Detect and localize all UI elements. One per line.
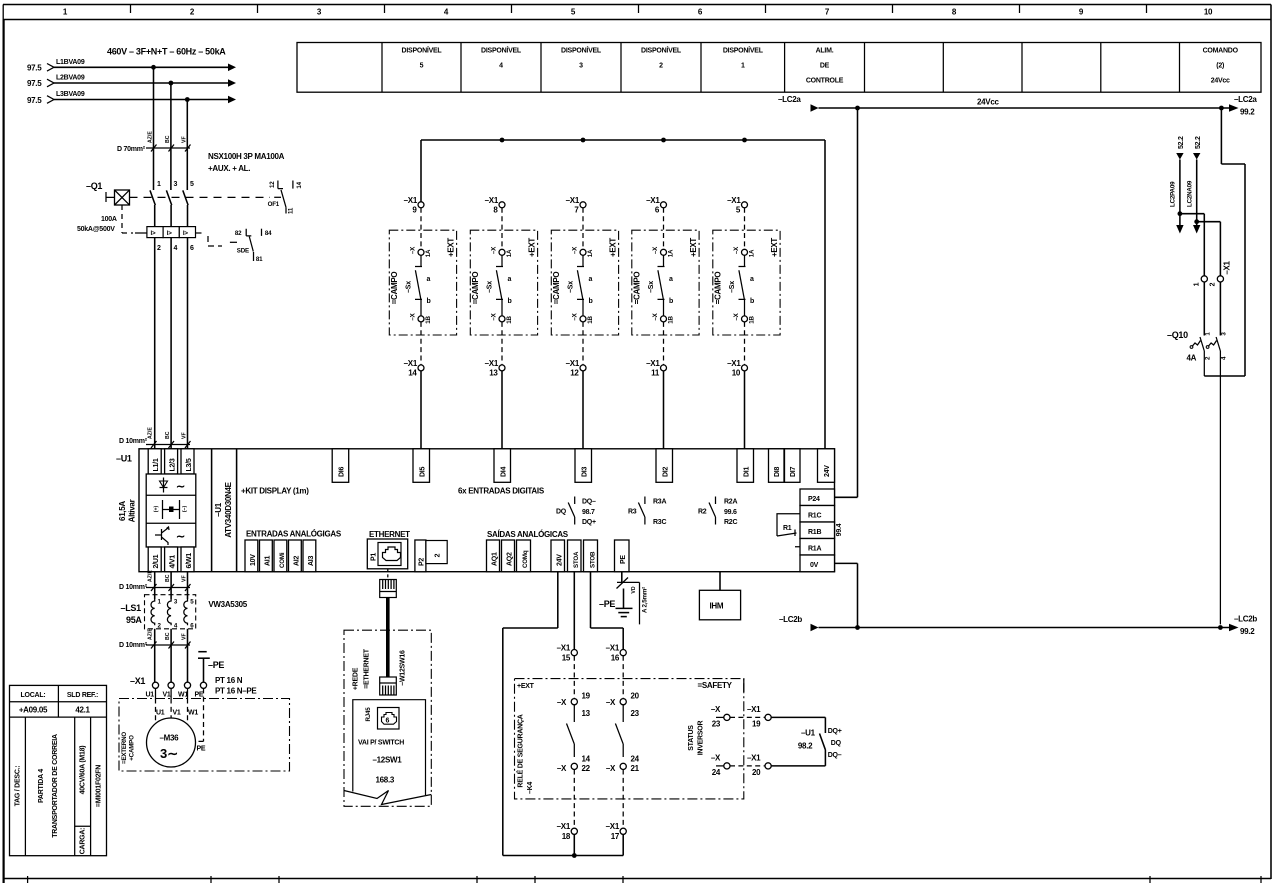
- wire X1:16 to K4: [622, 656, 624, 699]
- svg-text:DI5: DI5: [419, 467, 426, 478]
- terminal X1:5: [727, 196, 747, 249]
- terminal X 1A (S5): [733, 246, 756, 257]
- svg-text:ETHERNET: ETHERNET: [369, 530, 410, 539]
- terminal X 22 (K4): [557, 755, 591, 774]
- dc link symbol: [154, 500, 189, 519]
- junction campo bus c5: [742, 138, 747, 143]
- svg-text:L3/5: L3/5: [186, 458, 193, 471]
- wire W into motor: [187, 688, 189, 698]
- breaker Q1 pole 1: [150, 181, 161, 227]
- port P1 with RJ45 jack: [367, 539, 407, 569]
- wire LC2PA09: [1170, 136, 1186, 233]
- svg-text:BC: BC: [165, 135, 171, 143]
- drive U1 input terminal L3/5: [181, 449, 194, 474]
- status inversor labels: [688, 721, 705, 756]
- terminal 10V: [245, 540, 258, 572]
- svg-text:24: 24: [631, 755, 640, 764]
- terminal AI2: [289, 540, 302, 572]
- svg-text:–X: –X: [557, 698, 567, 707]
- svg-text:–X: –X: [606, 764, 616, 773]
- svg-text:DQ: DQ: [831, 740, 842, 747]
- svg-text:PE: PE: [197, 746, 206, 753]
- svg-text:L2/3: L2/3: [170, 458, 177, 471]
- svg-text:DISPONÍVEL: DISPONÍVEL: [561, 45, 602, 54]
- terminal X 1B (S3): [572, 312, 595, 323]
- terminal DI3: [575, 449, 592, 483]
- svg-text:DQ+: DQ+: [582, 519, 596, 526]
- terminal X1:16: [606, 644, 627, 663]
- junction Q10 to LC2b: [1218, 625, 1223, 630]
- svg-text:–12SW1: –12SW1: [373, 756, 403, 765]
- drive U1 output terminal 4/V1: [165, 547, 178, 572]
- svg-text:18: 18: [562, 832, 571, 841]
- svg-text:LC2PA09: LC2PA09: [1170, 181, 1177, 207]
- net LC2a 24Vcc bus: [778, 95, 1257, 117]
- svg-text:–X: –X: [733, 312, 740, 320]
- column header table: [297, 43, 1261, 93]
- svg-text:11: 11: [288, 207, 295, 214]
- wire safety return bus: [503, 834, 623, 855]
- svg-text:=CAMPO: =CAMPO: [390, 272, 399, 305]
- wire X1:2 to Q10: [1219, 282, 1221, 336]
- svg-text:24V: 24V: [557, 554, 564, 566]
- svg-text:VF: VF: [181, 633, 187, 640]
- svg-text:–X1: –X1: [566, 196, 580, 205]
- junction L3: [185, 97, 190, 102]
- svg-text:VF: VF: [181, 136, 187, 143]
- svg-text:1: 1: [157, 181, 161, 188]
- svg-text:–LS1: –LS1: [121, 603, 142, 613]
- svg-text:D 70mm²: D 70mm²: [117, 146, 146, 153]
- choke coil 1: [151, 599, 162, 630]
- cable label D 10mm2 choke in: [119, 570, 191, 591]
- svg-text:–X1: –X1: [404, 196, 418, 205]
- terminal X1:17: [606, 822, 627, 841]
- terminal AI1: [260, 540, 273, 572]
- svg-text:–X: –X: [557, 764, 567, 773]
- svg-text:R3: R3: [628, 509, 637, 516]
- svg-text:–X: –X: [711, 754, 721, 763]
- svg-text:DISPONÍVEL: DISPONÍVEL: [481, 45, 522, 54]
- terminal X1:19 status: [747, 705, 771, 729]
- svg-text:–Sx: –Sx: [568, 281, 575, 293]
- svg-text:U1: U1: [156, 710, 165, 717]
- svg-text:R1B: R1B: [808, 529, 821, 536]
- svg-text:2: 2: [157, 245, 161, 252]
- svg-text:99.4: 99.4: [836, 523, 843, 536]
- svg-text:–X1: –X1: [747, 754, 761, 763]
- cable label D 70mm2: [117, 131, 191, 153]
- wire PE drive to ground: [617, 572, 649, 625]
- svg-text:24V: 24V: [824, 465, 831, 477]
- svg-text:R1A: R1A: [808, 546, 821, 553]
- breaker Q10 pole 2: [1206, 337, 1220, 624]
- wire 24Vcc to P24: [835, 108, 858, 497]
- wire 24V digital common bus: [421, 140, 825, 449]
- switch -S5: [729, 255, 754, 316]
- svg-text:4: 4: [174, 245, 178, 252]
- terminal R1B: [800, 522, 835, 539]
- terminal X1:U1: [146, 682, 159, 698]
- enclosure EXT SAFETY: [515, 679, 744, 799]
- svg-text:PT 16 N: PT 16 N: [215, 676, 243, 685]
- svg-text:AI2: AI2: [294, 556, 301, 567]
- svg-text:3: 3: [174, 181, 178, 188]
- svg-text:PARTIDA 4: PARTIDA 4: [38, 769, 45, 803]
- svg-text:–X: –X: [733, 246, 740, 254]
- svg-text:2: 2: [1210, 282, 1217, 286]
- breaker Q10: [1167, 330, 1228, 363]
- motor M36: [147, 710, 199, 768]
- svg-text:42.1: 42.1: [75, 706, 90, 715]
- value label PT 16: [215, 676, 257, 696]
- svg-text:DI2: DI2: [662, 467, 669, 478]
- ethernet cable W12SW16: [380, 569, 407, 695]
- relay contact R1: [777, 514, 800, 547]
- svg-text:DI3: DI3: [581, 467, 588, 478]
- svg-text:1B: 1B: [506, 316, 513, 324]
- wire W to X1: [187, 629, 189, 683]
- choke coil 3: [184, 599, 195, 630]
- cable label D 10mm2 input: [119, 427, 191, 448]
- terminal PE drive: [615, 540, 630, 572]
- breaker Q1: [77, 181, 133, 233]
- svg-text:–X: –X: [711, 705, 721, 714]
- terminal DI7: [785, 449, 801, 483]
- junction L1: [151, 65, 156, 70]
- cable label D 10mm2 choke out: [119, 628, 191, 649]
- svg-text:–X1: –X1: [727, 359, 741, 368]
- svg-text:1A: 1A: [749, 249, 756, 257]
- svg-text:IHM: IHM: [710, 602, 724, 611]
- svg-text:=SAFETY: =SAFETY: [698, 681, 733, 690]
- terminal X 1B (S1): [410, 312, 433, 323]
- svg-text:24Vcc: 24Vcc: [1211, 77, 1230, 84]
- svg-text:∼: ∼: [176, 531, 185, 543]
- svg-text:DI7: DI7: [790, 467, 797, 478]
- svg-text:DI6: DI6: [339, 467, 346, 478]
- svg-text:–X1: –X1: [646, 196, 660, 205]
- svg-text:4: 4: [499, 62, 503, 69]
- svg-text:RJ45: RJ45: [365, 707, 372, 722]
- wire X1:1 to Q10: [1203, 282, 1205, 336]
- terminal X1:7: [566, 196, 586, 249]
- svg-text:10V: 10V: [250, 554, 257, 566]
- terminal X1:15: [557, 644, 578, 663]
- svg-text:4/V1: 4/V1: [170, 555, 177, 569]
- terminal X1:6: [646, 196, 666, 249]
- svg-text:b: b: [427, 298, 431, 305]
- svg-text:1B: 1B: [668, 316, 675, 324]
- terminal AI3: [303, 540, 316, 572]
- svg-text:13: 13: [489, 369, 498, 378]
- svg-text:+CAMPO: +CAMPO: [129, 735, 136, 761]
- svg-text:3: 3: [579, 62, 583, 69]
- svg-text:R3A: R3A: [653, 499, 666, 506]
- svg-text:a: a: [669, 276, 673, 283]
- terminal DI1: [737, 449, 754, 483]
- drive U1 input terminal L2/3: [165, 449, 178, 474]
- svg-text:99.6: 99.6: [724, 509, 737, 516]
- terminal X1:14: [404, 322, 424, 378]
- wire U into motor: [155, 688, 157, 698]
- svg-text:1A: 1A: [668, 249, 675, 257]
- svg-text:–LC2a: –LC2a: [778, 95, 801, 104]
- svg-text:b: b: [750, 298, 754, 305]
- svg-text:20: 20: [752, 768, 761, 777]
- terminal X1:11: [646, 322, 666, 378]
- svg-text:99.2: 99.2: [1240, 108, 1255, 117]
- wire motor phase U: [154, 572, 156, 599]
- svg-text:19: 19: [752, 720, 761, 729]
- svg-text:–Sx: –Sx: [729, 281, 736, 293]
- terminal P24: [800, 489, 835, 506]
- svg-text:R2A: R2A: [724, 499, 737, 506]
- svg-text:1B: 1B: [749, 316, 756, 324]
- svg-text:–X1: –X1: [727, 196, 741, 205]
- svg-text:–Sx: –Sx: [406, 281, 413, 293]
- svg-text:DQ–: DQ–: [828, 752, 842, 759]
- svg-text:CARGA:: CARGA:: [80, 828, 87, 855]
- enclosure CAMPO column S5: [713, 230, 780, 335]
- breaker Q1 pole 2: [166, 181, 177, 227]
- svg-text:P24: P24: [808, 496, 820, 503]
- aux contact SDE: [230, 229, 272, 263]
- junction LC2NA09: [1194, 219, 1199, 224]
- wire to DI5: [420, 371, 422, 449]
- svg-text:–X: –X: [606, 698, 616, 707]
- svg-text:82: 82: [235, 230, 242, 237]
- switch -S2: [487, 255, 512, 316]
- wire phase 3 drop: [186, 100, 188, 191]
- wire to DI1: [744, 371, 746, 449]
- svg-text:12: 12: [269, 181, 276, 188]
- wire LC2NA09: [1186, 136, 1202, 233]
- svg-text:+EXT: +EXT: [689, 238, 698, 257]
- svg-text:14: 14: [582, 755, 591, 764]
- svg-text:23: 23: [631, 709, 640, 718]
- value label NSX100H: [208, 152, 285, 173]
- svg-text:5: 5: [190, 181, 194, 188]
- svg-text:AZ/E: AZ/E: [148, 628, 154, 640]
- svg-text:–Sx: –Sx: [487, 281, 494, 293]
- svg-text:24: 24: [712, 768, 721, 777]
- wire branch to X1:2: [1197, 222, 1221, 276]
- svg-text:1B: 1B: [587, 316, 594, 324]
- wire L3BVA09: [27, 91, 236, 105]
- svg-text:–Q1: –Q1: [86, 181, 102, 191]
- svg-text:–PE: –PE: [599, 599, 615, 609]
- terminal X1:9: [404, 196, 424, 249]
- svg-text:VF: VF: [181, 575, 187, 582]
- svg-text:–Q10: –Q10: [1167, 330, 1188, 340]
- svg-text:16: 16: [611, 654, 620, 663]
- wire branch to X1:1: [1180, 214, 1204, 276]
- svg-text:a: a: [508, 276, 512, 283]
- enclosure CAMPO column S4: [632, 230, 699, 335]
- svg-text:–LC2b: –LC2b: [779, 615, 802, 624]
- terminal DI4: [494, 449, 511, 483]
- switch -S1: [406, 255, 431, 316]
- svg-text:DI4: DI4: [500, 467, 507, 478]
- contact R3: [628, 497, 666, 527]
- breaker Q10 pole 1: [1190, 337, 1204, 376]
- svg-text:95A: 95A: [126, 615, 142, 625]
- terminal X 1B (S4): [652, 312, 675, 323]
- junction 0V to LC2b: [855, 625, 860, 630]
- terminal DI8: [769, 449, 785, 483]
- svg-text:D 10mm²: D 10mm²: [119, 642, 148, 649]
- svg-text:ALIM.: ALIM.: [816, 47, 834, 54]
- terminal X 23 (status): [711, 705, 730, 729]
- svg-text:P1: P1: [371, 553, 378, 561]
- svg-text:6x ENTRADAS DIGITAIS: 6x ENTRADAS DIGITAIS: [458, 487, 545, 496]
- svg-text:VF: VF: [181, 432, 187, 439]
- choke coil 2: [167, 599, 178, 630]
- svg-text:INVERSOR: INVERSOR: [698, 721, 705, 756]
- svg-text:1A: 1A: [425, 249, 432, 257]
- contact K4 pole 2: [615, 705, 623, 757]
- svg-text:I>: I>: [151, 230, 157, 237]
- terminal X1:12: [566, 322, 586, 378]
- svg-text:ENTRADAS ANALÓGIGAS: ENTRADAS ANALÓGIGAS: [246, 530, 342, 539]
- drive U1 input terminal L1/1: [148, 449, 161, 474]
- wire L1BVA09: [27, 59, 236, 73]
- svg-text:23: 23: [712, 720, 721, 729]
- wire motor PE: [196, 688, 206, 752]
- wire phase 3 to drive: [187, 238, 189, 449]
- svg-text:61,5A: 61,5A: [118, 501, 127, 521]
- junction LC2PA09: [1178, 211, 1183, 216]
- terminal 24V top: [818, 449, 835, 483]
- terminal X 21 (K4): [606, 755, 640, 774]
- terminal X 19 (K4): [557, 692, 591, 719]
- contact R2: [698, 497, 737, 527]
- wire to DI4: [501, 371, 503, 449]
- terminal 24V bottom: [551, 540, 565, 572]
- svg-text:AZ/E: AZ/E: [148, 131, 154, 143]
- svg-text:–X: –X: [491, 312, 498, 320]
- svg-text:1: 1: [741, 62, 745, 69]
- svg-text:DQ–: DQ–: [582, 499, 596, 506]
- terminal STOB: [584, 540, 598, 572]
- svg-text:17: 17: [611, 832, 620, 841]
- wire X24 to X1:20: [730, 765, 765, 767]
- wire to DI2: [663, 371, 665, 449]
- terminal X1:W1: [178, 682, 191, 698]
- drive U1 output terminal 2/U1: [148, 547, 161, 572]
- svg-text:11: 11: [651, 369, 660, 378]
- svg-text:R2: R2: [698, 509, 707, 516]
- trip unit I> boxes: [135, 227, 222, 252]
- terminal R1C: [800, 506, 835, 523]
- svg-text:–X1: –X1: [404, 359, 418, 368]
- terminal X 1A (S3): [572, 246, 595, 257]
- svg-text:–X1: –X1: [747, 705, 761, 714]
- svg-text:DI1: DI1: [743, 467, 750, 478]
- svg-text:A 2,5mm²: A 2,5mm²: [642, 587, 649, 613]
- svg-text:BC: BC: [165, 632, 171, 640]
- svg-text:COMi: COMi: [279, 552, 286, 568]
- terminal DI6: [332, 449, 349, 483]
- junction campo bus c4: [661, 138, 666, 143]
- svg-text:14: 14: [296, 181, 303, 188]
- svg-text:VAI P/ SWITCH: VAI P/ SWITCH: [358, 740, 404, 747]
- svg-text:BC: BC: [165, 431, 171, 439]
- display IHM: [699, 572, 740, 620]
- terminal X 20 (K4): [606, 692, 640, 719]
- contact DQ: [556, 497, 596, 527]
- svg-text:–PE: –PE: [208, 660, 224, 670]
- svg-text:–W12SW16: –W12SW16: [400, 650, 407, 686]
- svg-text:b: b: [669, 298, 673, 305]
- svg-text:NSX100H 3P MA100A: NSX100H 3P MA100A: [208, 152, 285, 161]
- svg-text:=EXTERNO: =EXTERNO: [121, 732, 128, 764]
- wire K4 to X1:18: [573, 770, 575, 829]
- terminal AQ1: [487, 540, 500, 572]
- svg-text:CONTROLE: CONTROLE: [806, 77, 844, 84]
- svg-text:a: a: [427, 276, 431, 283]
- svg-text:b: b: [589, 298, 593, 305]
- wire X23 to X1:19: [730, 716, 765, 718]
- terminal X1:2: [1210, 276, 1224, 287]
- svg-text:L3BVA09: L3BVA09: [56, 91, 85, 98]
- terminal X1:18: [557, 822, 578, 841]
- ground PE motor: [198, 652, 224, 683]
- svg-text:R1: R1: [783, 525, 792, 532]
- terminal X 1A (S2): [491, 246, 514, 257]
- svg-text:13: 13: [582, 709, 591, 718]
- svg-text:PT 16 N–PE: PT 16 N–PE: [215, 687, 257, 696]
- safety relay K4 labels: [516, 714, 535, 794]
- switch 12SW1: [344, 700, 431, 805]
- svg-text:–X: –X: [572, 312, 579, 320]
- svg-text:DISPONÍVEL: DISPONÍVEL: [402, 45, 443, 54]
- terminal X1:13: [485, 322, 505, 378]
- svg-text:2: 2: [435, 553, 442, 557]
- svg-text:–X: –X: [652, 246, 659, 254]
- junction LC2a to P24: [855, 106, 860, 111]
- svg-text:=CAMPO: =CAMPO: [713, 272, 722, 305]
- svg-text:99.2: 99.2: [1240, 627, 1255, 636]
- svg-text:L1/1: L1/1: [153, 458, 160, 471]
- svg-text:b: b: [508, 298, 512, 305]
- terminal X 24 (status): [711, 754, 730, 778]
- svg-text:–X1: –X1: [606, 644, 620, 653]
- drive U1 power stage box: [146, 474, 196, 547]
- svg-text:(–): (–): [182, 506, 188, 513]
- svg-text:I>: I>: [183, 230, 189, 237]
- svg-text:DI8: DI8: [774, 467, 781, 478]
- svg-text:97.5: 97.5: [27, 64, 42, 73]
- svg-text:AI3: AI3: [308, 556, 315, 567]
- svg-text:I>: I>: [167, 230, 173, 237]
- svg-text:1A: 1A: [506, 249, 513, 257]
- svg-text:STOB: STOB: [590, 551, 597, 568]
- svg-text:+AUX. + AL.: +AUX. + AL.: [208, 164, 250, 173]
- svg-text:52.2: 52.2: [1195, 136, 1202, 149]
- svg-text:STOA: STOA: [573, 551, 580, 568]
- svg-text:SLD REF.:: SLD REF.:: [67, 692, 98, 699]
- svg-text:COMq: COMq: [522, 550, 529, 568]
- terminal X1:10: [727, 322, 747, 378]
- svg-text:–X1: –X1: [646, 359, 660, 368]
- svg-text:D 10mm²: D 10mm²: [119, 584, 148, 591]
- wire phase 1 drop: [153, 67, 155, 190]
- switch -S4: [648, 255, 673, 316]
- svg-text:SAÍDAS ANALÓGICAS: SAÍDAS ANALÓGICAS: [487, 530, 569, 539]
- svg-text:10: 10: [732, 369, 741, 378]
